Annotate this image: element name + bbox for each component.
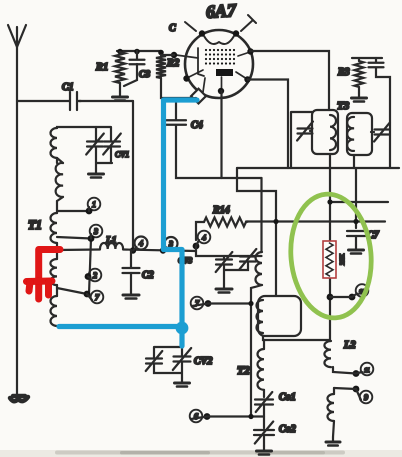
terminal row 4	[135, 237, 148, 250]
blue junction dot	[176, 322, 189, 335]
resistor R2	[156, 55, 166, 78]
wire T3 right coil down	[354, 155, 356, 228]
svg-text:СV2: СV2	[194, 356, 212, 367]
wire C4 down to bus	[176, 125, 262, 178]
tube top-right tick	[241, 15, 256, 31]
transformer T1 winding C	[51, 213, 58, 243]
wire caps join	[224, 256, 248, 284]
svg-text:С1: С1	[62, 82, 74, 93]
junction dot row b	[160, 247, 166, 253]
wire osc grid line	[59, 100, 197, 348]
terminal 9	[360, 391, 373, 404]
varcap Co1	[263, 390, 265, 397]
ground R3	[358, 87, 360, 93]
tube internal leads	[176, 52, 250, 92]
varcap CV2b	[173, 348, 191, 370]
terminal t1-1	[88, 198, 101, 211]
tube cathode line	[198, 48, 204, 76]
varcap CV3b	[240, 249, 257, 269]
tube pin diamond	[191, 89, 206, 104]
T1 tap wires	[57, 211, 91, 294]
svg-text:22К: 22К	[339, 253, 346, 265]
capacitor C3	[136, 51, 138, 59]
svg-text:9: 9	[364, 393, 368, 402]
varcap Co2	[254, 422, 274, 444]
wire R2 to osc grid	[161, 78, 197, 98]
svg-text:С: С	[169, 23, 176, 34]
svg-text:Со1: Со1	[279, 392, 296, 403]
wire antenna to C1	[17, 100, 69, 102]
varcap CV1b	[103, 134, 121, 155]
svg-text:R14: R14	[212, 205, 230, 216]
terminal row 3	[165, 237, 178, 250]
red resistor 22K box	[323, 241, 336, 278]
wire term7	[208, 302, 251, 304]
junction dots rails	[327, 199, 332, 204]
svg-text:3: 3	[93, 227, 98, 236]
coil L2 lower	[328, 394, 335, 421]
svg-text:4: 4	[202, 233, 206, 242]
transformer T1 winding D	[50, 259, 57, 285]
wire diamond to C4	[176, 98, 196, 119]
svg-text:4: 4	[139, 239, 143, 248]
ground antenna	[10, 396, 28, 401]
wire R14 left	[196, 222, 204, 240]
wire T2 top	[263, 340, 265, 349]
oscillator coil	[256, 252, 263, 285]
transformer T3 right coil	[347, 117, 354, 151]
svg-text:Т1: Т1	[28, 218, 42, 232]
terminal 6	[190, 410, 203, 423]
wire y168 bus	[237, 167, 399, 169]
ground C2	[130, 290, 132, 295]
wires CV2 box	[154, 347, 182, 378]
antenna	[8, 25, 26, 47]
resistor R3	[355, 61, 364, 87]
terminal t1-7	[91, 291, 104, 304]
transformer T1 winding A	[51, 128, 58, 158]
wire T1 C-D	[56, 243, 58, 259]
svg-text:С3: С3	[139, 70, 150, 80]
terminal 11	[361, 363, 374, 376]
wires CV1	[96, 127, 112, 169]
ground L2	[333, 421, 334, 437]
resistor 22K zigzag	[326, 243, 333, 276]
capacitor C1	[70, 92, 81, 110]
ground Co2	[263, 435, 265, 446]
capacitor C6	[375, 58, 377, 62]
wire T3 left side	[291, 112, 312, 168]
wire node down	[132, 101, 134, 249]
terminal t1-3	[90, 225, 103, 238]
capacitor C4	[166, 120, 186, 125]
wire rail A	[330, 201, 388, 203]
svg-text:6А7: 6А7	[205, 0, 237, 22]
varcap CV1a	[86, 134, 104, 155]
capacitor C2	[130, 250, 132, 267]
transformer T3 left coil	[330, 115, 336, 150]
transformer T1 winding B	[56, 163, 63, 197]
trimmer cap T3 left	[310, 130, 312, 132]
wire T1 A leads	[57, 127, 96, 163]
wire Co1-Co2	[263, 405, 265, 429]
wire term4 to caps	[196, 246, 262, 256]
wire stair step	[237, 168, 276, 296]
tube U1 envelope	[185, 30, 253, 98]
ground R1	[119, 83, 121, 92]
trimmer cap T3 right	[371, 131, 374, 133]
wire osc coil bottom	[251, 285, 262, 417]
terminal 4b	[198, 231, 211, 244]
wire C1 right	[79, 100, 133, 102]
osc box	[258, 296, 301, 336]
T1 link wire	[89, 239, 91, 294]
svg-text:С4: С4	[191, 120, 203, 131]
terminal 10	[356, 284, 369, 297]
svg-text:R2: R2	[166, 58, 180, 69]
wire tube bottom pin down	[220, 91, 222, 178]
transformer T3 right box	[347, 113, 372, 155]
svg-text:R3: R3	[337, 67, 350, 78]
coil L1	[100, 243, 123, 249]
ground C7	[355, 236, 357, 245]
wire to L2 row	[263, 336, 330, 340]
svg-text:L1: L1	[105, 236, 117, 246]
tube heater arcs	[204, 36, 234, 44]
tube grid dots	[205, 49, 207, 51]
wire tube left pin	[163, 54, 174, 56]
ground CV3	[223, 284, 225, 289]
varcap CV3a	[216, 252, 233, 272]
wire osc coil top	[260, 178, 262, 252]
tube grid C tick	[185, 22, 196, 31]
svg-text:L2: L2	[343, 340, 356, 351]
wire row 251	[57, 250, 196, 252]
svg-text:Т3: Т3	[337, 100, 350, 112]
transformer T1 winding E	[51, 296, 58, 326]
osc winding lower	[257, 300, 264, 333]
wire T3 left coil down	[329, 154, 331, 243]
svg-text:Т2: Т2	[237, 365, 250, 377]
tube pin dots	[199, 30, 205, 36]
wire T1 D-E	[56, 285, 58, 296]
varcap CV2a	[146, 351, 163, 371]
transformer T3 left box	[312, 110, 338, 154]
wire antenna down	[16, 47, 18, 396]
wire 22K node	[329, 277, 331, 340]
terminal t1-2	[89, 269, 102, 282]
wire pin to T3 primary	[250, 51, 329, 110]
wire top bias	[117, 51, 161, 55]
terminal 7b	[191, 297, 204, 310]
capacitor C7	[347, 231, 365, 236]
tube anode plate	[216, 69, 233, 76]
svg-text:СV1: СV1	[115, 150, 129, 159]
svg-text:С2: С2	[142, 270, 154, 281]
svg-text:11: 11	[364, 368, 370, 374]
svg-text:6: 6	[194, 412, 198, 421]
ground CV2	[181, 378, 183, 383]
resistor R1	[115, 52, 125, 83]
green ellipse annotation	[286, 191, 377, 322]
transformer T2 winding	[257, 349, 264, 390]
wire term6	[207, 415, 264, 417]
wire rail B	[246, 220, 385, 222]
ground CV1	[95, 169, 97, 174]
wire R3 top	[352, 58, 382, 61]
wire T1 B-C	[56, 201, 58, 213]
svg-text:Со2: Со2	[279, 424, 296, 435]
svg-text:2: 2	[93, 271, 97, 280]
wire pin anode right	[248, 80, 289, 169]
red marker annotation	[27, 250, 61, 300]
svg-text:1: 1	[92, 200, 96, 209]
junction dot 22K	[327, 294, 334, 301]
wire R14 right	[246, 220, 248, 223]
coil L2 upper	[324, 341, 331, 367]
svg-text:R1: R1	[95, 62, 108, 73]
blue highlight path	[59, 100, 197, 346]
resistor R14	[204, 218, 246, 227]
junction dot row a	[130, 247, 136, 253]
